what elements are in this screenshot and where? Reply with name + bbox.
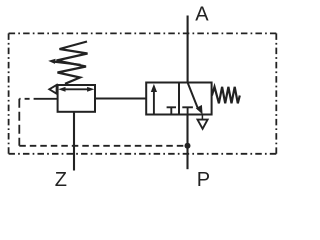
svg-text:A: A [195,4,209,26]
svg-text:P: P [197,169,210,190]
svg-text:Z: Z [55,169,67,190]
